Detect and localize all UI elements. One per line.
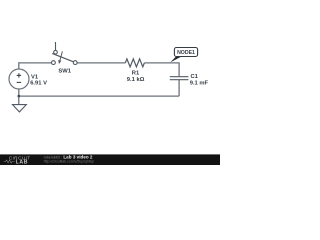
svg-text:C1: C1 (191, 74, 199, 80)
svg-text:LAB: LAB (16, 159, 28, 165)
svg-text:V1: V1 (31, 74, 39, 80)
svg-text:roberski02 : Lab 3 video 2: roberski02 : Lab 3 video 2 (44, 154, 93, 159)
svg-text:9.1 mF: 9.1 mF (190, 81, 209, 87)
svg-text:NODE1: NODE1 (177, 50, 195, 56)
svg-text:http://circuitlab.com/c/5vp2qh: http://circuitlab.com/c/5vp2qh8q/ (44, 160, 94, 164)
svg-text:9.1 kΩ: 9.1 kΩ (127, 77, 145, 83)
svg-text:R1: R1 (132, 70, 140, 76)
svg-text:SW1: SW1 (58, 69, 71, 75)
svg-text:6.91 V: 6.91 V (30, 81, 47, 87)
